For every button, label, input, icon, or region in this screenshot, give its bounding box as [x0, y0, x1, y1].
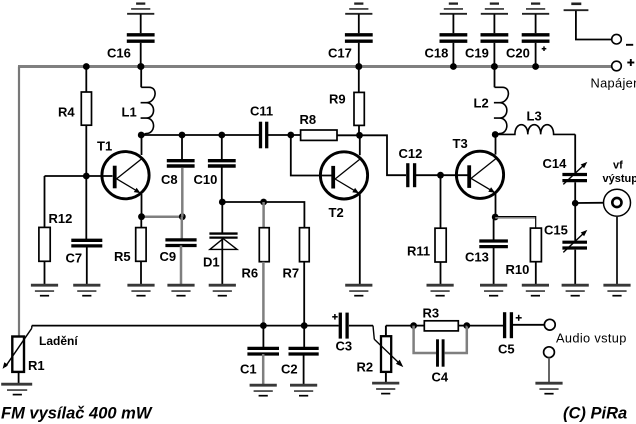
resistor R6 — [259, 228, 269, 262]
wire C10 top — [221, 135, 223, 159]
node L2 rail junction — [491, 63, 498, 70]
terminal audio input — [544, 319, 555, 330]
node junction C2 — [301, 322, 308, 329]
wire R12 to ground — [44, 261, 46, 285]
label C20 plus polarity — [542, 48, 547, 50]
node C17 rail junction — [355, 63, 362, 70]
svg-text:D1: D1 — [203, 255, 220, 270]
label minus sign — [626, 44, 633, 46]
wire C7 to ground — [86, 246, 88, 285]
node junction T2 collector — [356, 132, 363, 139]
ground C9 — [167, 284, 194, 287]
capacitor C2 — [289, 347, 319, 350]
svg-text:R11: R11 — [407, 244, 430, 259]
wire left border from rail to R1 — [18, 67, 20, 337]
capacitor C17 — [345, 33, 373, 36]
inductor L3 — [495, 125, 575, 135]
svg-text:R4: R4 — [58, 105, 75, 120]
svg-text:C4: C4 — [432, 370, 449, 385]
wire R6 top — [262, 202, 265, 228]
capacitor C19 — [481, 33, 509, 36]
ground C13 — [480, 284, 507, 287]
inductor L2 — [494, 87, 508, 134]
wire rail to R4 — [85, 67, 87, 93]
svg-text:R1: R1 — [28, 358, 45, 373]
ground vf terminal — [603, 284, 630, 287]
svg-text:R7: R7 — [283, 266, 300, 281]
resistor R4 — [81, 92, 91, 125]
capacitor C8 — [167, 159, 195, 162]
svg-text:R3: R3 — [423, 306, 440, 321]
wire C18 top stub — [452, 14, 454, 33]
terminal audio ground — [544, 347, 555, 358]
wire R1 to ground — [18, 372, 20, 385]
wire C9 top — [181, 217, 184, 239]
wire C7 top — [85, 176, 87, 239]
terminal supply plus — [612, 61, 622, 71]
capacitor C1 — [247, 347, 279, 350]
node junction R3 left — [410, 322, 417, 329]
node junction T3 emitter — [492, 214, 499, 221]
node junction T3 collector — [492, 131, 499, 138]
ground audio — [535, 382, 562, 385]
resistor R5 — [136, 228, 146, 262]
svg-text:R6: R6 — [242, 266, 259, 281]
node C19 rail junction — [491, 63, 498, 70]
wire R12 top — [44, 176, 46, 227]
resistor R10 — [530, 228, 541, 262]
wire R4 to base node — [85, 125, 87, 176]
wire node A — [141, 134, 259, 136]
ground above C17 — [354, 2, 363, 4]
potentiometer R1 — [12, 337, 24, 372]
wire T3 emitter to R10 — [495, 217, 536, 229]
wire C5 to audio terminal — [511, 324, 544, 326]
resistor R3 — [424, 321, 458, 331]
svg-text:C15: C15 — [544, 223, 568, 238]
node A junction C8 — [179, 132, 186, 139]
svg-text:R8: R8 — [300, 112, 317, 127]
svg-text:C14: C14 — [543, 156, 568, 171]
node C16 rail junction — [137, 63, 144, 70]
wire C19 to rail — [493, 43, 495, 67]
svg-text:C12: C12 — [399, 146, 423, 161]
wire minus terminal — [576, 11, 612, 40]
wire C8 bottom — [181, 168, 184, 217]
node junction C1 — [260, 322, 267, 329]
wire C2 top — [303, 326, 305, 347]
svg-text:R10: R10 — [506, 262, 530, 277]
wire R11 top — [440, 175, 442, 228]
svg-text:R5: R5 — [114, 249, 131, 264]
svg-text:FM vysílač 400 mW: FM vysílač 400 mW — [1, 405, 153, 423]
wire C16 top stub — [140, 14, 142, 33]
diode D1 varicap — [209, 232, 237, 234]
wire rail to R9 — [358, 67, 360, 93]
capacitor C11 — [259, 122, 262, 149]
svg-text:(C) PiRa: (C) PiRa — [563, 405, 627, 423]
ground R12 — [31, 284, 58, 287]
capacitor C15 variable — [562, 241, 587, 244]
svg-text:C2: C2 — [281, 362, 298, 377]
wire T1 emitter — [141, 194, 143, 217]
capacitor C16 — [127, 33, 155, 36]
wire C13 top — [493, 217, 495, 240]
svg-text:R9: R9 — [329, 92, 346, 107]
wire R3 leads — [414, 325, 425, 327]
wire C4 loop — [414, 326, 436, 353]
svg-text:R2: R2 — [357, 360, 374, 375]
wire C1 to ground — [262, 354, 265, 385]
capacitor C4 — [436, 339, 439, 366]
ground T2 emitter — [345, 284, 372, 287]
ground C1 — [250, 384, 277, 387]
node junction vf output — [572, 200, 579, 207]
wire L2 bottom — [494, 134, 496, 135]
wire C9 to ground — [180, 246, 183, 286]
svg-text:L3: L3 — [527, 109, 542, 124]
capacitor C20 — [522, 33, 550, 36]
wire R5 to ground — [140, 261, 142, 285]
wire R2 to ground — [385, 372, 387, 383]
wire R3 to C5 — [467, 325, 503, 327]
node junction T2 base branch — [287, 132, 294, 139]
wire D1 top — [221, 202, 223, 233]
wire C14 to C15 — [574, 182, 576, 240]
svg-text:Ladění: Ladění — [39, 334, 78, 348]
transistor T2 — [320, 152, 367, 199]
svg-text:Napájení: Napájení — [591, 76, 636, 91]
node A junction C10 — [218, 132, 225, 139]
svg-text:vf: vf — [613, 160, 623, 172]
wire C2 to ground — [303, 354, 305, 385]
wire T3 emitter — [495, 194, 497, 217]
wire L3 to C14 — [574, 134, 576, 172]
wire power rail + — [18, 65, 612, 68]
svg-text:C17: C17 — [328, 46, 352, 61]
svg-text:T2: T2 — [329, 205, 344, 220]
wire C20 to rail — [535, 43, 537, 67]
label C5 plus — [516, 317, 522, 319]
wire R9 to collector node — [358, 125, 360, 135]
label C3 plus — [332, 316, 338, 318]
wire border to R1 — [18, 336, 20, 338]
svg-text:C9: C9 — [160, 249, 177, 264]
svg-text:C11: C11 — [250, 104, 273, 119]
wire C20 top stub — [535, 14, 537, 33]
ground above C20 — [531, 2, 540, 4]
node R4 rail junction — [83, 63, 90, 70]
svg-text:C1: C1 — [240, 362, 257, 377]
wire T1 base — [45, 175, 113, 177]
wire T1 collector — [141, 135, 143, 155]
transistor T3 — [456, 151, 503, 198]
wire C17 to rail — [358, 43, 360, 67]
wire C11 to R8 — [267, 134, 300, 136]
label plus sign — [627, 62, 634, 64]
capacitor C14 variable — [562, 173, 587, 176]
wire T2 emitter — [359, 194, 361, 285]
svg-text:výstup: výstup — [603, 173, 636, 185]
ground above C19 — [490, 2, 499, 4]
svg-text:C19: C19 — [465, 46, 489, 61]
wire R2 top pin to R3 — [386, 325, 414, 327]
terminal vf output — [604, 189, 631, 216]
svg-text:C3: C3 — [336, 339, 353, 354]
wire tuning line — [32, 325, 339, 327]
ground R2 — [372, 382, 399, 385]
capacitor C10 — [208, 159, 236, 162]
svg-text:C16: C16 — [107, 46, 131, 61]
wire C3 to R2 wiper — [349, 325, 373, 327]
wire C8 top — [181, 135, 183, 159]
wire C19 top stub — [493, 14, 495, 33]
wire C1 top — [262, 326, 264, 347]
ground D1 — [209, 284, 236, 287]
resistor R9 — [354, 92, 364, 125]
wire vf terminal to ground — [616, 216, 618, 285]
wire T2 base vertical — [291, 135, 332, 176]
ground top right (supply minus) — [571, 2, 581, 5]
svg-text:C20: C20 — [506, 46, 530, 61]
ground R5 — [127, 284, 154, 287]
node C20 rail junction — [532, 63, 539, 70]
node T1 base junction R4 — [83, 173, 90, 180]
wire T3 collector — [495, 135, 497, 155]
potentiometer R2 — [381, 336, 391, 372]
ground C15 — [562, 284, 589, 287]
wire R8 to C12 corner — [337, 135, 406, 175]
svg-text:C10: C10 — [194, 172, 218, 187]
capacitor C13 — [479, 239, 508, 242]
resistor R8 — [301, 130, 337, 140]
capacitor C7 — [71, 239, 102, 242]
svg-text:Audio vstup: Audio vstup — [556, 331, 627, 346]
wire C15 to ground — [574, 250, 576, 286]
wire L1 to node A — [140, 134, 142, 136]
wire R5 top — [140, 217, 142, 228]
resistor R11 — [435, 228, 446, 262]
wire C18 to rail — [452, 43, 454, 67]
ground C2 — [290, 384, 317, 387]
wire node varicap horizontal — [222, 202, 304, 228]
ground R10 — [522, 284, 549, 287]
svg-text:C5: C5 — [498, 342, 515, 357]
capacitor C5 electrolytic — [503, 312, 506, 338]
node C18 rail junction — [450, 63, 457, 70]
resistor R12 — [39, 227, 50, 261]
transistor T1 — [102, 152, 149, 199]
node R9 rail junction — [355, 63, 362, 70]
wire R11 to ground — [440, 262, 442, 285]
svg-text:C18: C18 — [425, 46, 449, 61]
svg-text:C8: C8 — [161, 172, 178, 187]
svg-text:C13: C13 — [465, 250, 489, 265]
wire T2 collector — [359, 135, 361, 155]
capacitor C12 — [406, 163, 409, 187]
svg-text:T3: T3 — [453, 136, 468, 151]
ground C7 — [73, 284, 100, 287]
node A junction L1 — [138, 132, 145, 139]
ground above C18 — [449, 2, 458, 4]
node L1 rail junction — [138, 63, 145, 70]
wire R6 bottom — [262, 262, 265, 326]
resistor R7 — [300, 228, 310, 262]
wire C10 bottom — [221, 168, 223, 203]
wire to vf terminal — [575, 202, 611, 204]
node junction R3 right — [463, 322, 470, 329]
svg-text:L2: L2 — [474, 96, 489, 111]
capacitor C9 — [165, 238, 196, 241]
wire C17 top stub — [358, 14, 360, 33]
ground above C16 — [136, 2, 145, 4]
node junction D1 — [219, 199, 226, 206]
node emitter junction — [138, 213, 145, 220]
svg-text:T1: T1 — [97, 139, 112, 154]
terminal supply minus — [612, 34, 622, 44]
ground R11 — [427, 284, 454, 287]
wire C13 to ground — [493, 247, 495, 286]
inductor L1 — [141, 87, 155, 134]
wire audio terminal to ground — [548, 358, 550, 384]
svg-text:C7: C7 — [66, 251, 83, 266]
node junction R6 — [260, 199, 267, 206]
wire C16 to rail — [140, 43, 142, 67]
wire C12 to T3 base — [415, 174, 469, 176]
ground R1 — [1, 383, 32, 386]
wire R7 bottom — [303, 262, 305, 326]
node junction R11 — [437, 172, 444, 179]
capacitor C18 — [440, 33, 468, 36]
svg-text:L1: L1 — [122, 105, 137, 120]
wire R10 to ground — [535, 262, 537, 286]
wire T1 emitter node — [142, 215, 183, 218]
svg-text:R12: R12 — [49, 211, 73, 226]
capacitor C3 electrolytic — [339, 313, 342, 339]
node emitter junction C8 — [179, 213, 186, 220]
